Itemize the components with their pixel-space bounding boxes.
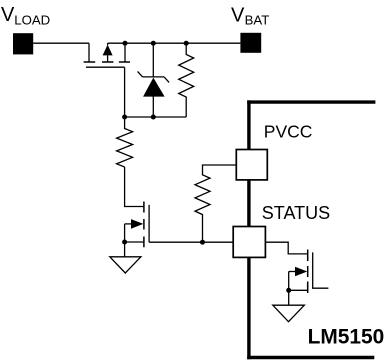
wire Q3 source to ground	[288, 290, 290, 305]
resistor R2	[117, 117, 133, 167]
node V_BAT pad	[240, 33, 261, 53]
resistor R3 (pull-up PVCC to STATUS)	[195, 165, 236, 242]
ground GND1	[110, 257, 141, 273]
junction Q2 source / ground	[122, 240, 127, 245]
wire R2 to Q2 drain	[125, 167, 144, 207]
pin PVCC box	[236, 150, 267, 180]
wire Q2 gate to STATUS pin	[149, 241, 233, 243]
svg-text:V: V	[231, 4, 245, 26]
pin STATUS box	[233, 227, 265, 258]
svg-text:LOAD: LOAD	[14, 12, 50, 27]
junction Q1 drain / rail	[123, 41, 128, 46]
transistor Q3 (NMOS, internal open-drain)	[289, 250, 329, 294]
wire V_LOAD pad to Q1 source	[33, 42, 89, 44]
svg-text:V: V	[1, 4, 15, 26]
wire gate rail (R1 bottom to Q1 gate)	[125, 67, 187, 117]
transistor Q2 (NMOS, vertical)	[125, 202, 150, 248]
junction Q3 source / ground	[286, 288, 291, 293]
svg-text:PVCC: PVCC	[264, 122, 313, 142]
junction Q1 gate / gate rail	[122, 115, 127, 120]
node V_LOAD pad	[13, 33, 33, 54]
ground GND2	[273, 305, 305, 322]
junction R3 bottom / STATUS net	[200, 240, 205, 245]
junction zener bottom / gate rail	[151, 115, 156, 120]
svg-text:LM5150: LM5150	[308, 326, 385, 349]
junction R1 top / rail	[184, 41, 189, 46]
wire Q2 source to ground	[124, 242, 126, 257]
wire STATUS pin to Q3 drain	[265, 242, 307, 254]
node V_LOAD label	[1, 4, 50, 27]
resistor R1	[179, 43, 194, 117]
svg-text:BAT: BAT	[245, 13, 270, 28]
wire V_BAT rail	[108, 42, 241, 44]
zener diode D1	[138, 43, 170, 117]
IC U1 LM5150 outline	[247, 100, 375, 359]
transistor Q1 (PMOS, horizontal)	[84, 43, 130, 67]
junction zener top / rail	[151, 41, 156, 46]
node V_BAT label	[231, 4, 269, 27]
svg-text:STATUS: STATUS	[262, 203, 330, 223]
